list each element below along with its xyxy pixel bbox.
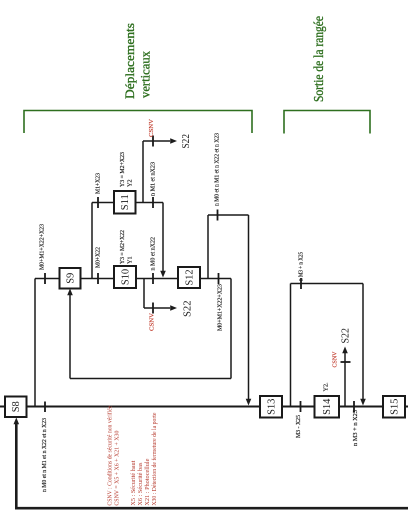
transition tick CSNV jump near S14 — [341, 361, 351, 363]
transition tick after S8 — [44, 402, 46, 413]
step S11 — [114, 191, 136, 214]
arrow right to S22 (top jump) — [170, 138, 177, 144]
svg-text:X6 : Sécurité bas: X6 : Sécurité bas — [137, 462, 144, 506]
arrow into S9 bottom — [67, 289, 73, 296]
transition tick before S10 — [97, 273, 99, 284]
svg-text:S22: S22 — [181, 134, 192, 149]
wire S12 loopback right segment — [230, 279, 232, 379]
wire S12 exit top segment — [208, 214, 249, 216]
svg-text:CSNV : Conditions de sécurité: CSNV : Conditions de sécurité non vérifi… — [107, 405, 114, 505]
svg-text:S13: S13 — [267, 399, 278, 415]
arrow down onto main line before S13 — [246, 399, 252, 406]
wire S14 skip loop right with arrow — [362, 284, 364, 400]
step labels — [11, 194, 401, 415]
bracket Deplacements verticaux — [24, 111, 252, 134]
svg-text:M1+X23: M1+X23 — [95, 173, 102, 194]
svg-text:X21 : Photocellule: X21 : Photocellule — [144, 458, 151, 505]
wire CSNV jump branch after S10 — [143, 279, 145, 309]
transition tick CSNV top jump — [152, 136, 154, 147]
step S8 — [5, 397, 27, 418]
svg-text:M0+X22: M0+X22 — [95, 247, 102, 268]
step boxes — [5, 191, 405, 418]
svg-text:Y1: Y1 — [127, 256, 134, 264]
wire S9-S10-S12 flow line — [35, 278, 231, 280]
transition tick S14 skip loop — [300, 278, 302, 289]
svg-text:S11: S11 — [120, 194, 131, 210]
transition tick before S11 — [97, 197, 99, 208]
bracket Sortie de la rangee — [284, 111, 370, 134]
transition tick CSNV middle jump — [152, 303, 154, 314]
svg-text:Y3 = M2+X23: Y3 = M2+X23 — [119, 152, 126, 187]
green section titles — [122, 16, 327, 102]
svg-text:X30 : Détection de fermeture d: X30 : Détection de fermeture de la porte — [151, 412, 158, 505]
arrow down onto main line after S14 loop — [360, 399, 366, 406]
svg-text:Y3 = M2+X22: Y3 = M2+X22 — [119, 230, 126, 264]
svg-text:CSNV = X5 + X6 + X21 + X30: CSNV = X5 + X6 + X21 + X30 — [114, 431, 121, 506]
transition tick S12 loopback — [218, 273, 220, 284]
transition tick after S10 — [152, 273, 154, 284]
step S14 — [315, 396, 340, 418]
green section brackets — [24, 111, 370, 134]
wire loopback horizontal to S9 — [70, 378, 231, 380]
svg-text:verticaux: verticaux — [138, 51, 153, 98]
svg-text:S22: S22 — [341, 328, 352, 344]
svg-text:n M0 et n M1 et n X22 et n X23: n M0 et n M1 et n X22 et n X23 — [41, 418, 48, 492]
svg-text:CSNV: CSNV — [149, 312, 156, 331]
svg-text:CSNV: CSNV — [148, 118, 155, 137]
svg-text:S10: S10 — [121, 269, 132, 285]
svg-text:Sortie de la rangée: Sortie de la rangée — [312, 16, 327, 102]
transition tick before S9 (from main line) — [44, 273, 46, 284]
svg-text:M0+M1+X22+X23: M0+M1+X22+X23 — [39, 224, 46, 270]
step S13 — [260, 396, 282, 418]
svg-text:S14: S14 — [322, 398, 333, 415]
transition condition labels — [39, 133, 360, 492]
svg-text:n M3 + n X25: n M3 + n X25 — [352, 410, 359, 446]
red CSNV transition labels — [148, 118, 339, 367]
transition tick after S11 — [152, 197, 154, 208]
transition ticks — [45, 136, 354, 413]
wire loopback up into S9 — [69, 295, 71, 379]
wire S11 input line — [92, 202, 114, 204]
svg-text:S22: S22 — [183, 301, 194, 318]
svg-text:Déplacements: Déplacements — [122, 23, 137, 99]
arrow up to S22 near S14 — [342, 347, 348, 354]
wire long line down to S13 input — [248, 215, 250, 399]
svg-text:n M0 et nX22: n M0 et nX22 — [150, 237, 157, 271]
step S15 — [383, 396, 405, 418]
arrow right to S22 (middle jump) — [170, 305, 177, 311]
svg-text:n M0 et n M1 et n X22 et n X23: n M0 et n M1 et n X22 et n X23 — [214, 133, 221, 206]
wire branch up from main line to S9 input transition — [34, 279, 36, 407]
svg-text:M3 - X25: M3 - X25 — [295, 415, 302, 438]
svg-text:S8: S8 — [11, 401, 22, 412]
svg-text:Y2: Y2 — [127, 179, 134, 187]
arrow into S8 bottom — [14, 418, 20, 425]
wire S8 feedback return line — [16, 423, 408, 508]
jump step labels S22 — [181, 134, 352, 344]
svg-text:M0+M1+X22+X23: M0+M1+X22+X23 — [217, 284, 224, 331]
wire branch from S9 output up to S11 — [91, 203, 93, 279]
step S10 — [114, 266, 136, 288]
transition tick between S13 and S14 — [300, 401, 302, 412]
wire CSNV jump branch after S11 — [142, 141, 144, 203]
svg-text:S15: S15 — [390, 399, 401, 415]
red legend — [107, 405, 159, 505]
step S12 — [178, 267, 200, 288]
wire S12 exit up branch — [207, 215, 209, 279]
svg-text:S12: S12 — [185, 269, 196, 285]
svg-text:Y2.: Y2. — [323, 382, 330, 392]
transition tick between S14 and S15 — [353, 401, 355, 412]
wire CSNV jump branch near S14 — [344, 352, 346, 407]
step S9 — [60, 268, 81, 289]
wire CSNV jump arrow line to S22 (top) — [143, 140, 170, 142]
wire S11 to S12 descent — [162, 203, 164, 272]
svg-text:n M3 + n X25: n M3 + n X25 — [298, 252, 305, 281]
svg-text:n M1 et nX23: n M1 et nX23 — [150, 162, 157, 196]
svg-text:X5 : Sécurité haut: X5 : Sécurité haut — [130, 460, 137, 505]
svg-text:CSNV: CSNV — [332, 351, 339, 368]
transition tick S12 exit to row — [217, 210, 219, 221]
wire S14 skip loop top — [291, 283, 364, 285]
svg-text:S9: S9 — [66, 273, 77, 284]
wire S14 skip loop left — [290, 284, 292, 407]
arrow down from S11 onto S10-S12 line — [160, 271, 166, 278]
wire CSNV jump arrow line to S22 (middle) — [144, 307, 170, 309]
wire main flow line — [0, 406, 408, 408]
wire S11 output line — [136, 202, 164, 204]
